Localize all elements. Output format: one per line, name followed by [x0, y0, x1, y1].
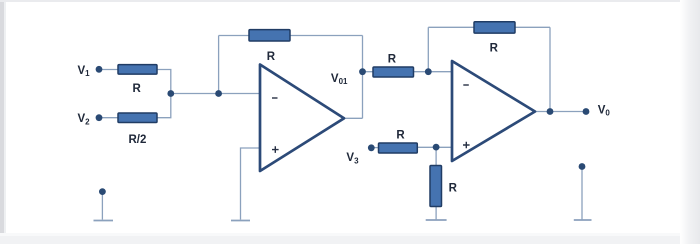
svg-text:R: R [388, 54, 397, 66]
wire node to grounded R [435, 147, 437, 165]
resistor R (U2 feedback) [474, 22, 515, 33]
node U1 inverting junction [215, 90, 222, 97]
op-amp U2 [452, 61, 535, 161]
node U2 non-inverting junction [433, 144, 440, 151]
node V3 terminal [368, 144, 375, 151]
svg-text:R: R [490, 42, 499, 54]
ground (grounded R) [426, 219, 447, 221]
U1 non-inverting mark [272, 146, 279, 153]
node V01 [359, 68, 366, 75]
node summing junction [167, 90, 174, 97]
node V0 terminal [583, 108, 590, 115]
svg-text:R: R [133, 83, 142, 95]
wire V3 to R [371, 147, 378, 149]
wire feedback U1 right vertical [362, 36, 364, 119]
svg-text:R: R [449, 183, 458, 195]
resistor R (V01 to U2) [373, 67, 414, 77]
resistor R (V1 input) [118, 65, 157, 75]
wire summing node to op-amp U1 inverting input [171, 93, 260, 95]
U2 non-inverting mark [463, 142, 470, 149]
ground (U1 non-inverting) [231, 220, 250, 222]
svg-text:R: R [396, 129, 405, 141]
resistor R (V3 input) [379, 143, 418, 153]
wire R to U2 inverting input [414, 71, 453, 73]
wire V01 node to R [363, 71, 374, 73]
resistor R (to ground at U2 non-inverting) [430, 166, 442, 207]
node V2 terminal [96, 114, 103, 121]
wire R to inverting summing node [157, 70, 171, 118]
wire U2 output to V0 [535, 111, 586, 113]
node V1 terminal [96, 66, 103, 73]
U2 inverting mark [463, 84, 469, 86]
resistor R (U1 feedback) [249, 30, 290, 41]
node left ground terminal [99, 188, 106, 195]
wire feedback U2 top [428, 26, 550, 28]
wire left terminal to ground [101, 193, 103, 220]
ground (left terminal) [94, 220, 114, 222]
wire feedback U1 left vertical [218, 36, 220, 94]
node U2 output junction [547, 108, 554, 115]
wire V1 to R [99, 69, 118, 71]
ground (right terminal) [574, 219, 592, 221]
svg-text:R/2: R/2 [129, 134, 147, 146]
node U2 inverting junction [425, 68, 432, 75]
svg-text:R: R [267, 51, 276, 63]
U1 inverting mark [272, 97, 278, 99]
wire feedback U2 left vertical [427, 27, 429, 71]
resistor R/2 (V2 input) [118, 113, 157, 123]
op-amp U1 [260, 65, 344, 172]
wire feedback U2 right vertical [549, 27, 551, 111]
node right ground terminal [579, 163, 586, 170]
wire V2 to R/2 [99, 117, 118, 119]
wire grounded R to ground [435, 207, 437, 220]
wire feedback U1 top [219, 35, 363, 37]
wire right terminal to ground [581, 168, 583, 220]
wire R to U2 non-inverting input [417, 146, 452, 148]
wire U1 output [344, 117, 363, 119]
wire U1 non-inverting input to ground [241, 148, 261, 220]
